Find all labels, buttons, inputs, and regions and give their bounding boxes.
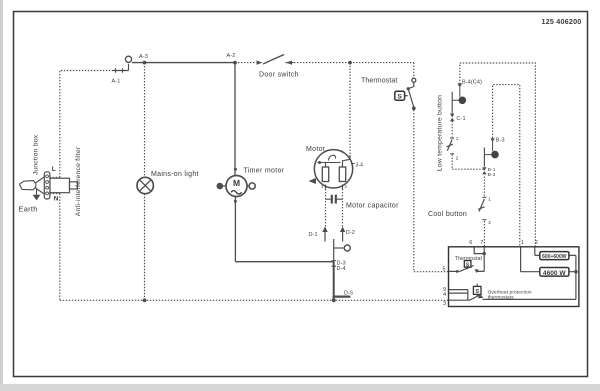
svg-text:Motor capacitor: Motor capacitor bbox=[346, 203, 399, 210]
svg-text:Low temperature button: Low temperature button bbox=[437, 95, 444, 171]
svg-text:N: N bbox=[54, 196, 59, 203]
svg-text:2: 2 bbox=[456, 155, 459, 161]
svg-text:Timer motor: Timer motor bbox=[244, 168, 285, 175]
svg-text:5: 5 bbox=[443, 267, 446, 273]
svg-text:Anti-interference filter: Anti-interference filter bbox=[75, 146, 82, 216]
svg-text:Cool button: Cool button bbox=[428, 211, 467, 218]
svg-text:S: S bbox=[475, 289, 479, 295]
svg-text:Door switch: Door switch bbox=[259, 72, 299, 79]
svg-text:L: L bbox=[52, 166, 56, 173]
svg-text:2: 2 bbox=[488, 220, 491, 226]
svg-text:6: 6 bbox=[469, 240, 472, 246]
svg-text:Motor: Motor bbox=[306, 146, 326, 153]
svg-text:B-2: B-2 bbox=[488, 172, 496, 178]
svg-text:thermostats: thermostats bbox=[488, 294, 515, 300]
svg-text:S: S bbox=[397, 94, 402, 101]
svg-text:Thermostat: Thermostat bbox=[455, 256, 483, 262]
svg-text:D-4: D-4 bbox=[337, 266, 346, 272]
svg-text:A-1: A-1 bbox=[112, 79, 121, 85]
svg-text:C-1: C-1 bbox=[457, 116, 466, 122]
svg-text:1: 1 bbox=[456, 136, 459, 142]
svg-text:A-2: A-2 bbox=[227, 53, 236, 59]
svg-text:1: 1 bbox=[521, 240, 524, 246]
svg-text:D-5: D-5 bbox=[344, 290, 353, 296]
svg-text:D-2: D-2 bbox=[346, 230, 355, 236]
svg-text:2: 2 bbox=[535, 240, 538, 246]
svg-text:Mains-on light: Mains-on light bbox=[151, 171, 199, 178]
svg-text:1: 1 bbox=[488, 197, 491, 203]
svg-text:M: M bbox=[233, 178, 240, 188]
svg-text:A-3: A-3 bbox=[139, 54, 148, 60]
svg-text:B-3: B-3 bbox=[496, 137, 505, 143]
svg-text:3: 3 bbox=[443, 301, 446, 307]
svg-text:Thermostat: Thermostat bbox=[361, 78, 397, 85]
svg-text:125 406200: 125 406200 bbox=[542, 17, 582, 26]
svg-text:4600 W: 4600 W bbox=[543, 270, 567, 277]
svg-text:B-4(C4): B-4(C4) bbox=[462, 79, 482, 85]
svg-text:Junction box: Junction box bbox=[33, 134, 40, 175]
svg-text:4: 4 bbox=[443, 292, 446, 298]
svg-text:3-4: 3-4 bbox=[356, 162, 364, 168]
svg-text:D-1: D-1 bbox=[309, 232, 318, 238]
svg-text:Earth: Earth bbox=[19, 205, 38, 214]
svg-text:B-1: B-1 bbox=[488, 167, 496, 173]
svg-text:600+600W: 600+600W bbox=[542, 254, 567, 260]
svg-text:7: 7 bbox=[480, 240, 483, 246]
